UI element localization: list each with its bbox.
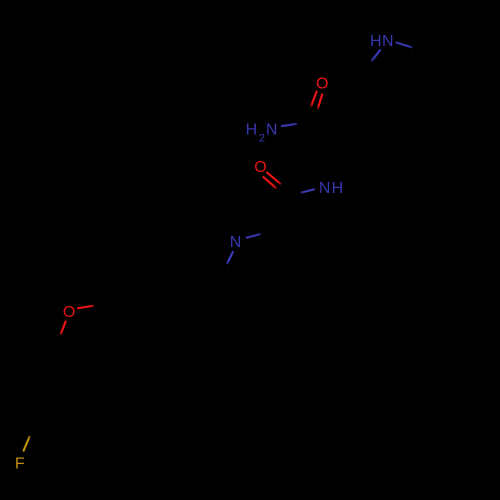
bond N4-C stub (up-right): [246, 234, 261, 238]
svg-text:O: O: [316, 76, 328, 93]
bond N4-C stub (down-left): [227, 251, 233, 264]
svg-text:N: N: [230, 234, 242, 251]
svg-text:F: F: [15, 456, 25, 473]
bond F1-C stub (up-right): [23, 436, 30, 452]
bond O3-C stub (down-left): [61, 321, 66, 335]
bond O2=C double bond stub, main line: [266, 172, 281, 184]
bond O2=C double bond stub, offset line: [263, 176, 277, 188]
svg-text:O: O: [63, 304, 75, 321]
bond O1=C double bond stub, main line: [311, 91, 317, 107]
bond N3-C stub (to the left): [300, 189, 315, 193]
svg-text:HN: HN: [370, 33, 394, 50]
bond O3-C stub (up-right): [77, 306, 94, 309]
bond N1-C stub (to the right): [396, 42, 413, 47]
svg-text:O: O: [254, 159, 266, 176]
bond O1=C double bond stub, offset line: [318, 94, 323, 109]
bond N2-C stub (to the right): [281, 124, 297, 126]
bond N1-C stub (down-left): [371, 49, 380, 61]
svg-text:NH: NH: [319, 180, 345, 197]
